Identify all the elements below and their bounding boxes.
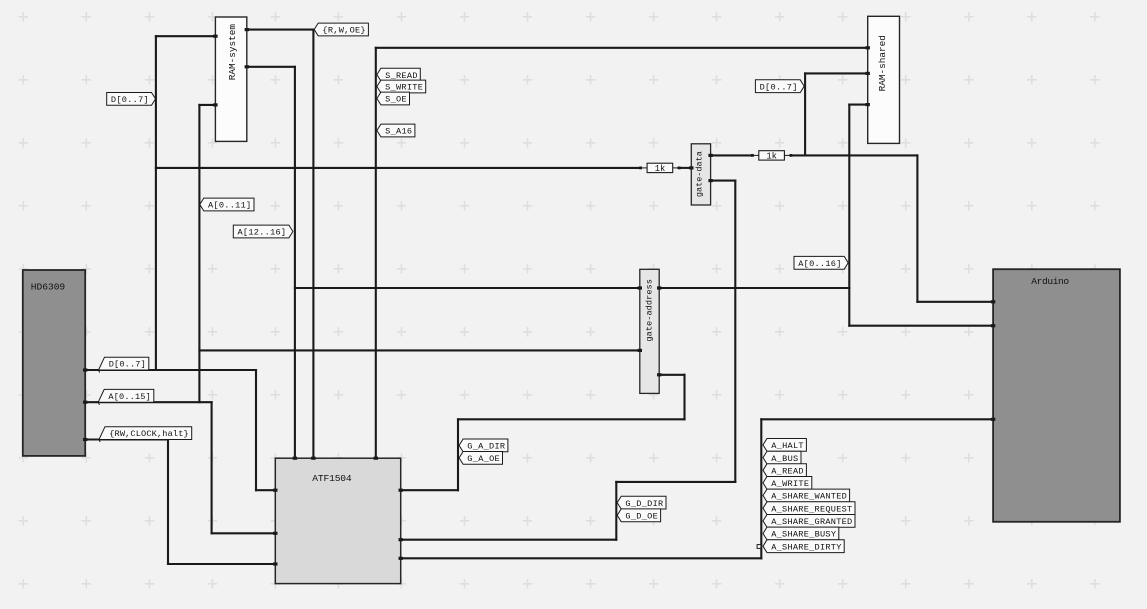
wire wire A-net into ATF1504: [212, 532, 276, 534]
label G_D_OE: [617, 509, 660, 522]
wire wire D-shared vertical: [804, 73, 806, 155]
wire wire A_SHARE from ATF1504: [401, 557, 762, 559]
wire wire A-net from HD6309: [85, 401, 211, 403]
svg-text:gate-address: gate-address: [644, 279, 654, 342]
wire wire A0-16 to RAM-shared: [849, 104, 867, 106]
wire wire A12-16 branch to gate-address: [295, 287, 640, 289]
pin gate-address right2: [657, 373, 661, 376]
svg-text:A_SHARE_DIRTY: A_SHARE_DIRTY: [771, 542, 841, 552]
pin RAM-shared A: [866, 103, 870, 106]
wire wire D-net to R1: [156, 167, 640, 169]
svg-text:RAM-shared: RAM-shared: [877, 35, 888, 91]
gate-address block: [640, 269, 659, 393]
wire wire G_A vertical: [683, 375, 685, 420]
pin ATF right GD: [399, 538, 403, 541]
RAM-shared block: [868, 16, 900, 143]
wire wire A0-16 vertical: [848, 105, 850, 326]
svg-text:A[0..11]: A[0..11]: [208, 201, 251, 211]
pin gate-address left1: [638, 286, 642, 289]
svg-text:A[0..15]: A[0..15]: [108, 392, 150, 402]
label D[0..7] HD6309: [99, 357, 149, 370]
label A_READ: [763, 464, 806, 477]
svg-text:{R,W,OE}: {R,W,OE}: [322, 26, 365, 36]
label A_SHARE_DIRTY: [763, 540, 844, 553]
wire wire A12-16 vertical to ATF: [294, 67, 296, 458]
svg-text:S_A16: S_A16: [385, 127, 412, 137]
svg-text:S_OE: S_OE: [385, 95, 407, 105]
label A_HALT: [763, 439, 806, 452]
wire wire G_D horizontal: [616, 481, 735, 483]
label S_A16: [377, 124, 415, 137]
pin ATF top3: [374, 457, 378, 460]
label S_OE: [377, 92, 410, 105]
wire wire G_A horizontal: [458, 418, 685, 420]
label A[0..15] HD6309: [98, 389, 154, 402]
label A[0..16]: [794, 256, 848, 269]
wire wire data vertical to Arduino: [916, 155, 918, 301]
wire wire G_A from gate-address: [659, 374, 684, 376]
pin Arduino share: [991, 418, 995, 421]
label A_SHARE_GRANTED: [763, 515, 855, 528]
label G_D_DIR: [617, 496, 666, 509]
pin RAM-shared D: [866, 72, 870, 75]
wire wire G_A into ATF1504: [401, 489, 458, 491]
label A_SHARE_REQUEST: [763, 502, 855, 515]
wire wire D-net into ATF1504: [256, 489, 275, 491]
label A_SHARE_BUSY: [763, 527, 839, 540]
label A_WRITE: [763, 477, 812, 490]
resistor R1 1k: [640, 167, 647, 169]
CPU HD6309: [23, 270, 85, 456]
svg-text:A_HALT: A_HALT: [771, 441, 803, 451]
wire wire G_D vertical to gate-data: [734, 181, 736, 482]
wire wire A_SHARE vertical: [760, 419, 762, 558]
pin Arduino addr: [991, 324, 995, 327]
pin HD6309 RW: [83, 438, 87, 441]
wire wire gate-data to R2: [711, 154, 753, 156]
wire wire D-net vertical: [155, 36, 157, 370]
svg-text:HD6309: HD6309: [31, 282, 66, 293]
svg-text:A_WRITE: A_WRITE: [771, 479, 809, 489]
wire wire A12-16 from RAM-system: [247, 66, 295, 68]
wire wire RW-net from HD6309: [85, 438, 168, 440]
resistor R2 1k: [752, 154, 759, 156]
svg-text:A[0..16]: A[0..16]: [798, 259, 841, 269]
wire wire data into Arduino: [917, 301, 993, 303]
wire wire A0-16 into Arduino: [849, 325, 993, 327]
pin ATF top2: [311, 457, 315, 460]
svg-text:D[0..7]: D[0..7]: [111, 95, 149, 105]
pin RAM-system A: [213, 103, 217, 106]
svg-text:G_D_OE: G_D_OE: [625, 512, 657, 522]
wire wire A-net vertical: [211, 402, 213, 533]
wire wire D-net to RAM-system left pin: [156, 35, 216, 37]
svg-text:A_SHARE_GRANTED: A_SHARE_GRANTED: [771, 517, 852, 527]
svg-text:G_D_DIR: G_D_DIR: [625, 499, 663, 509]
svg-text:S_WRITE: S_WRITE: [385, 83, 423, 93]
pin ATF right SHARE: [399, 557, 403, 560]
wire wire R,W,OE from RAM-system: [247, 29, 314, 31]
svg-text:A_READ: A_READ: [771, 466, 803, 476]
wire wire G_D from ATF1504: [401, 539, 617, 541]
pin RAM-system RWOE: [245, 28, 249, 31]
pin Arduino data: [991, 300, 995, 303]
svg-text:A_SHARE_BUSY: A_SHARE_BUSY: [771, 530, 836, 540]
wire wire G_D vertical: [615, 482, 617, 540]
label S_WRITE: [377, 80, 426, 93]
svg-text:D[0..7]: D[0..7]: [109, 360, 146, 370]
pin RAM-shared S: [866, 46, 870, 49]
pin ATF left A: [273, 532, 277, 535]
label D[0..7] shared: [755, 80, 804, 93]
wire wire R1 to gate-data: [679, 167, 692, 169]
svg-text:S_READ: S_READ: [385, 71, 417, 81]
wire wire S-net vertical to ATF: [375, 48, 377, 458]
pin RAM-system A12-16: [245, 65, 249, 68]
pin ATF top1: [293, 457, 297, 460]
wire wire G_D from gate-data: [711, 180, 736, 182]
pin RAM-system D: [213, 35, 217, 38]
pin HD6309 A: [83, 401, 87, 404]
pin ATF left D: [273, 489, 277, 492]
wire wire A-net to gate-address: [199, 349, 639, 351]
svg-text:A_SHARE_REQUEST: A_SHARE_REQUEST: [771, 504, 852, 514]
pin ATF right GA: [399, 489, 403, 492]
svg-text:1k: 1k: [655, 164, 666, 174]
RAM-system block: [215, 17, 246, 141]
label A_BUS: [763, 451, 801, 464]
label {R,W,OE}: [314, 23, 368, 36]
wire wire A-net to RAM-system left pin: [199, 104, 215, 106]
wire wire G_A vertical to ATF: [457, 419, 459, 490]
svg-text:G_A_OE: G_A_OE: [467, 454, 499, 464]
pin gate-address right1: [657, 286, 661, 289]
pin HD6309 D: [83, 368, 87, 371]
wire wire A-net vertical branch: [198, 105, 200, 402]
wire wire S-net to RAM-shared: [376, 47, 868, 49]
wire wire D-shared to RAM-shared: [805, 72, 868, 74]
wire wire A_SHARE to Arduino: [761, 418, 993, 420]
pin gate-data right1: [708, 154, 712, 157]
gate-data block: [691, 144, 710, 205]
wire wire RW-net vertical: [167, 440, 169, 565]
label S_READ: [377, 68, 420, 81]
svg-text:gate-data: gate-data: [694, 151, 704, 197]
pin gate-data left: [689, 166, 693, 169]
wire wire gate-address to A0-16 net: [659, 287, 849, 289]
pin ATF left RW: [273, 562, 277, 565]
svg-text:A[12..16]: A[12..16]: [238, 228, 287, 238]
pin gate-data right2: [708, 179, 712, 182]
svg-text:G_A_DIR: G_A_DIR: [467, 442, 505, 452]
label G_A_DIR: [459, 439, 508, 452]
svg-text:Arduino: Arduino: [1031, 276, 1069, 287]
svg-text:A_SHARE_WANTED: A_SHARE_WANTED: [771, 492, 847, 502]
label A[0..11]: [200, 198, 254, 211]
label A_SHARE_WANTED: [763, 489, 850, 502]
wire wire R2 to corner: [791, 154, 917, 156]
wire wire D-net from HD6309: [85, 369, 256, 371]
svg-text:1k: 1k: [766, 152, 777, 162]
label G_A_OE: [459, 452, 502, 465]
unconnected marker A_SHARE_DIRTY: [757, 545, 761, 549]
wire wire D-net vertical to ATF: [255, 370, 257, 490]
svg-text:A_BUS: A_BUS: [771, 454, 798, 464]
label A[12..16]: [233, 225, 293, 238]
label D[0..7] top-left: [107, 93, 156, 106]
Arduino block: [993, 269, 1120, 522]
wire wire RW-net into ATF1504: [168, 563, 275, 565]
svg-text:ATF1504: ATF1504: [312, 473, 352, 484]
CPLD ATF1504: [275, 458, 400, 583]
pin gate-address left2: [638, 349, 642, 352]
label {RW,CLOCK,halt}: [99, 427, 192, 440]
svg-text:D[0..7]: D[0..7]: [760, 82, 798, 92]
svg-text:RAM-system: RAM-system: [227, 24, 238, 81]
svg-text:{RW,CLOCK,halt}: {RW,CLOCK,halt}: [109, 429, 189, 439]
wire wire R,W,OE vertical to ATF: [312, 30, 314, 459]
